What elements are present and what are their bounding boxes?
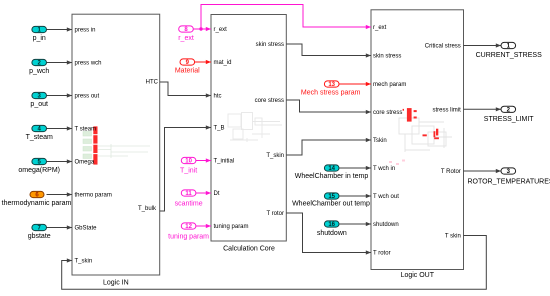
subsystem block Logic OUT (371, 10, 464, 270)
outport 1 CURRENT_STRESS (501, 42, 516, 48)
svg-text:T_steam: T_steam (26, 134, 53, 141)
inport 9 Material (red) (180, 59, 195, 65)
svg-text:HTC: HTC (146, 80, 159, 86)
svg-text:skin stress: skin stress (256, 42, 284, 48)
svg-text:r_ext: r_ext (214, 27, 228, 33)
outport 3 ROTOR_TEMPERATURES (501, 168, 516, 174)
svg-text:Omega: Omega (75, 160, 95, 166)
wire Material to mat_id (195, 61, 211, 63)
svg-text:mat_id: mat_id (214, 60, 232, 66)
wire p_wch to Logic IN (47, 62, 73, 64)
svg-text:WheelChamber out temp: WheelChamber out temp (292, 201, 370, 208)
wire p_in to Logic IN (47, 29, 73, 31)
wire HTC to htc (160, 82, 211, 96)
wire T skin feedback to Logic IN T_skin (62, 236, 487, 290)
inport 15 WheelChamber out temp (cyan) (324, 193, 339, 199)
svg-text:T_B: T_B (214, 126, 225, 132)
svg-text:core stress: core stress (255, 98, 284, 104)
svg-text:T steam: T steam (75, 127, 97, 133)
content preview faint lines inside Logic IN (98, 144, 150, 158)
svg-text:Logic OUT: Logic OUT (401, 272, 435, 279)
svg-text:T Rotor: T Rotor (441, 169, 461, 175)
inport 5 omega(RPM) (cyan) (32, 158, 47, 164)
svg-text:press in: press in (75, 28, 96, 34)
inport 8 r_ext (magenta) (179, 26, 194, 32)
svg-text:WheelChamber in temp: WheelChamber in temp (295, 173, 369, 180)
svg-text:press out: press out (75, 94, 100, 100)
wire Mech stress param to mech param (339, 83, 371, 85)
svg-text:p_wch: p_wch (29, 68, 49, 75)
wire core stress (286, 100, 371, 112)
svg-text:thermodynamic param: thermodynamic param (2, 200, 72, 207)
wire to outport 1 (464, 45, 502, 47)
inport 2 p_wch (cyan) (32, 59, 47, 65)
content preview sketch inside Logic IN (faint green boxes) (83, 132, 92, 137)
svg-text:Calculation Core: Calculation Core (223, 246, 275, 253)
svg-text:14: 14 (328, 166, 335, 172)
svg-text:scantime: scantime (175, 201, 203, 208)
svg-text:ROTOR_TEMPERATURES: ROTOR_TEMPERATURES (467, 179, 550, 186)
svg-text:tuning param: tuning param (214, 224, 249, 230)
svg-text:r_ext: r_ext (373, 25, 387, 31)
wire to T wch out (339, 195, 371, 197)
svg-text:GbState: GbState (75, 226, 98, 232)
inport 4 T_steam (cyan) (32, 125, 47, 131)
svg-text:Tskin: Tskin (373, 138, 387, 144)
svg-text:mech param: mech param (373, 82, 406, 88)
svg-text:shutdown: shutdown (317, 230, 347, 237)
subsystem block Calculation Core (211, 15, 286, 242)
inport 11 scantime (magenta) (181, 190, 196, 196)
inport 12 tuning param (magenta) (181, 223, 196, 229)
inport 7 gbstate (cyan) (32, 224, 47, 230)
wire to shutdown (339, 223, 371, 225)
svg-text:T rotor: T rotor (373, 251, 391, 257)
wire tuning param to Calculation Core (196, 225, 211, 227)
svg-text:T_initial: T_initial (214, 159, 235, 165)
svg-text:CURRENT_STRESS: CURRENT_STRESS (476, 52, 542, 59)
svg-text:shutdown: shutdown (373, 222, 399, 228)
inport 10 T_init (magenta) (181, 157, 196, 163)
svg-text:htc: htc (214, 94, 222, 100)
content preview red marks inside Logic OUT (403, 108, 439, 139)
wire r_ext to Calculation Core (193, 28, 211, 30)
svg-text:Critical stress: Critical stress (425, 44, 461, 50)
wire T_bulk to T_B (160, 128, 211, 212)
svg-text:thermo param: thermo param (75, 193, 112, 199)
inport 16 shutdown (cyan) (324, 221, 339, 227)
content preview sketch inside Calculation Core (faint gray) (228, 113, 282, 143)
svg-text:T skin: T skin (445, 234, 461, 240)
svg-text:T_bulk: T_bulk (138, 206, 157, 212)
svg-text:T wch out: T wch out (373, 194, 399, 200)
svg-text:16: 16 (328, 222, 335, 228)
subsystem block Logic IN (72, 14, 160, 275)
svg-text:12: 12 (185, 224, 192, 230)
wire to outport 2 (464, 108, 502, 110)
svg-text:press wch: press wch (75, 61, 102, 67)
svg-text:Logic IN: Logic IN (103, 280, 129, 287)
wire T_steam to Logic IN (47, 128, 73, 130)
wire to outport 3 (464, 170, 502, 172)
wire T_init to T_initial (196, 160, 211, 162)
svg-text:T_init: T_init (180, 168, 197, 175)
inport 14 WheelChamber in temp (cyan) (324, 165, 339, 171)
svg-text:p_in: p_in (33, 35, 46, 42)
wire to T wch in (339, 167, 371, 169)
wire r_ext branch to Logic OUT (201, 5, 371, 30)
svg-text:r_ext: r_ext (178, 35, 194, 42)
svg-text:10: 10 (185, 159, 192, 165)
svg-text:omega(RPM): omega(RPM) (18, 167, 60, 174)
inport 1 p_in (cyan) (32, 26, 47, 32)
svg-text:p_out: p_out (30, 101, 48, 108)
svg-text:15: 15 (328, 194, 335, 200)
wire omega(RPM) to Logic IN (47, 161, 73, 163)
wire skin stress (286, 44, 371, 56)
wire gbstate to Logic IN (47, 227, 73, 229)
svg-text:Material: Material (175, 68, 200, 75)
content preview sketch inside Logic OUT (faint gray) (399, 118, 452, 152)
junction node on r_ext wire (199, 27, 202, 30)
svg-text:T_skin: T_skin (266, 153, 284, 159)
svg-text:gbstate: gbstate (28, 233, 51, 240)
svg-text:13: 13 (328, 82, 335, 88)
svg-text:STRESS_LIMIT: STRESS_LIMIT (484, 116, 535, 123)
svg-text:T_skin: T_skin (75, 259, 93, 265)
inport 6 thermodynamic param (orange) (30, 191, 44, 197)
svg-text:Dt: Dt (214, 191, 220, 197)
svg-text:skin stress: skin stress (373, 54, 401, 60)
svg-text:tuning param: tuning param (168, 234, 209, 241)
content preview red dashed bar inside Logic IN (93, 126, 97, 134)
wire T rotor (286, 213, 371, 253)
svg-text:T rotor: T rotor (266, 211, 284, 217)
svg-text:T wch in: T wch in (373, 166, 395, 172)
wire thermodynamic param to Logic IN (47, 194, 73, 196)
svg-text:stress limit: stress limit (432, 108, 461, 114)
outport 2 STRESS_LIMIT (501, 106, 516, 112)
content preview faint pink dots inside Logic OUT (389, 160, 405, 166)
wire p_out to Logic IN (47, 95, 73, 97)
svg-text:core stress: core stress (373, 110, 402, 116)
inport 13 Mech stress param (red) (324, 81, 339, 87)
wire scantime to Dt (196, 192, 211, 194)
inport 3 p_out (cyan) (32, 92, 47, 98)
svg-text:11: 11 (185, 191, 192, 197)
wire T_skin to Tskin (286, 140, 371, 155)
svg-text:Mech stress param: Mech stress param (301, 89, 361, 96)
